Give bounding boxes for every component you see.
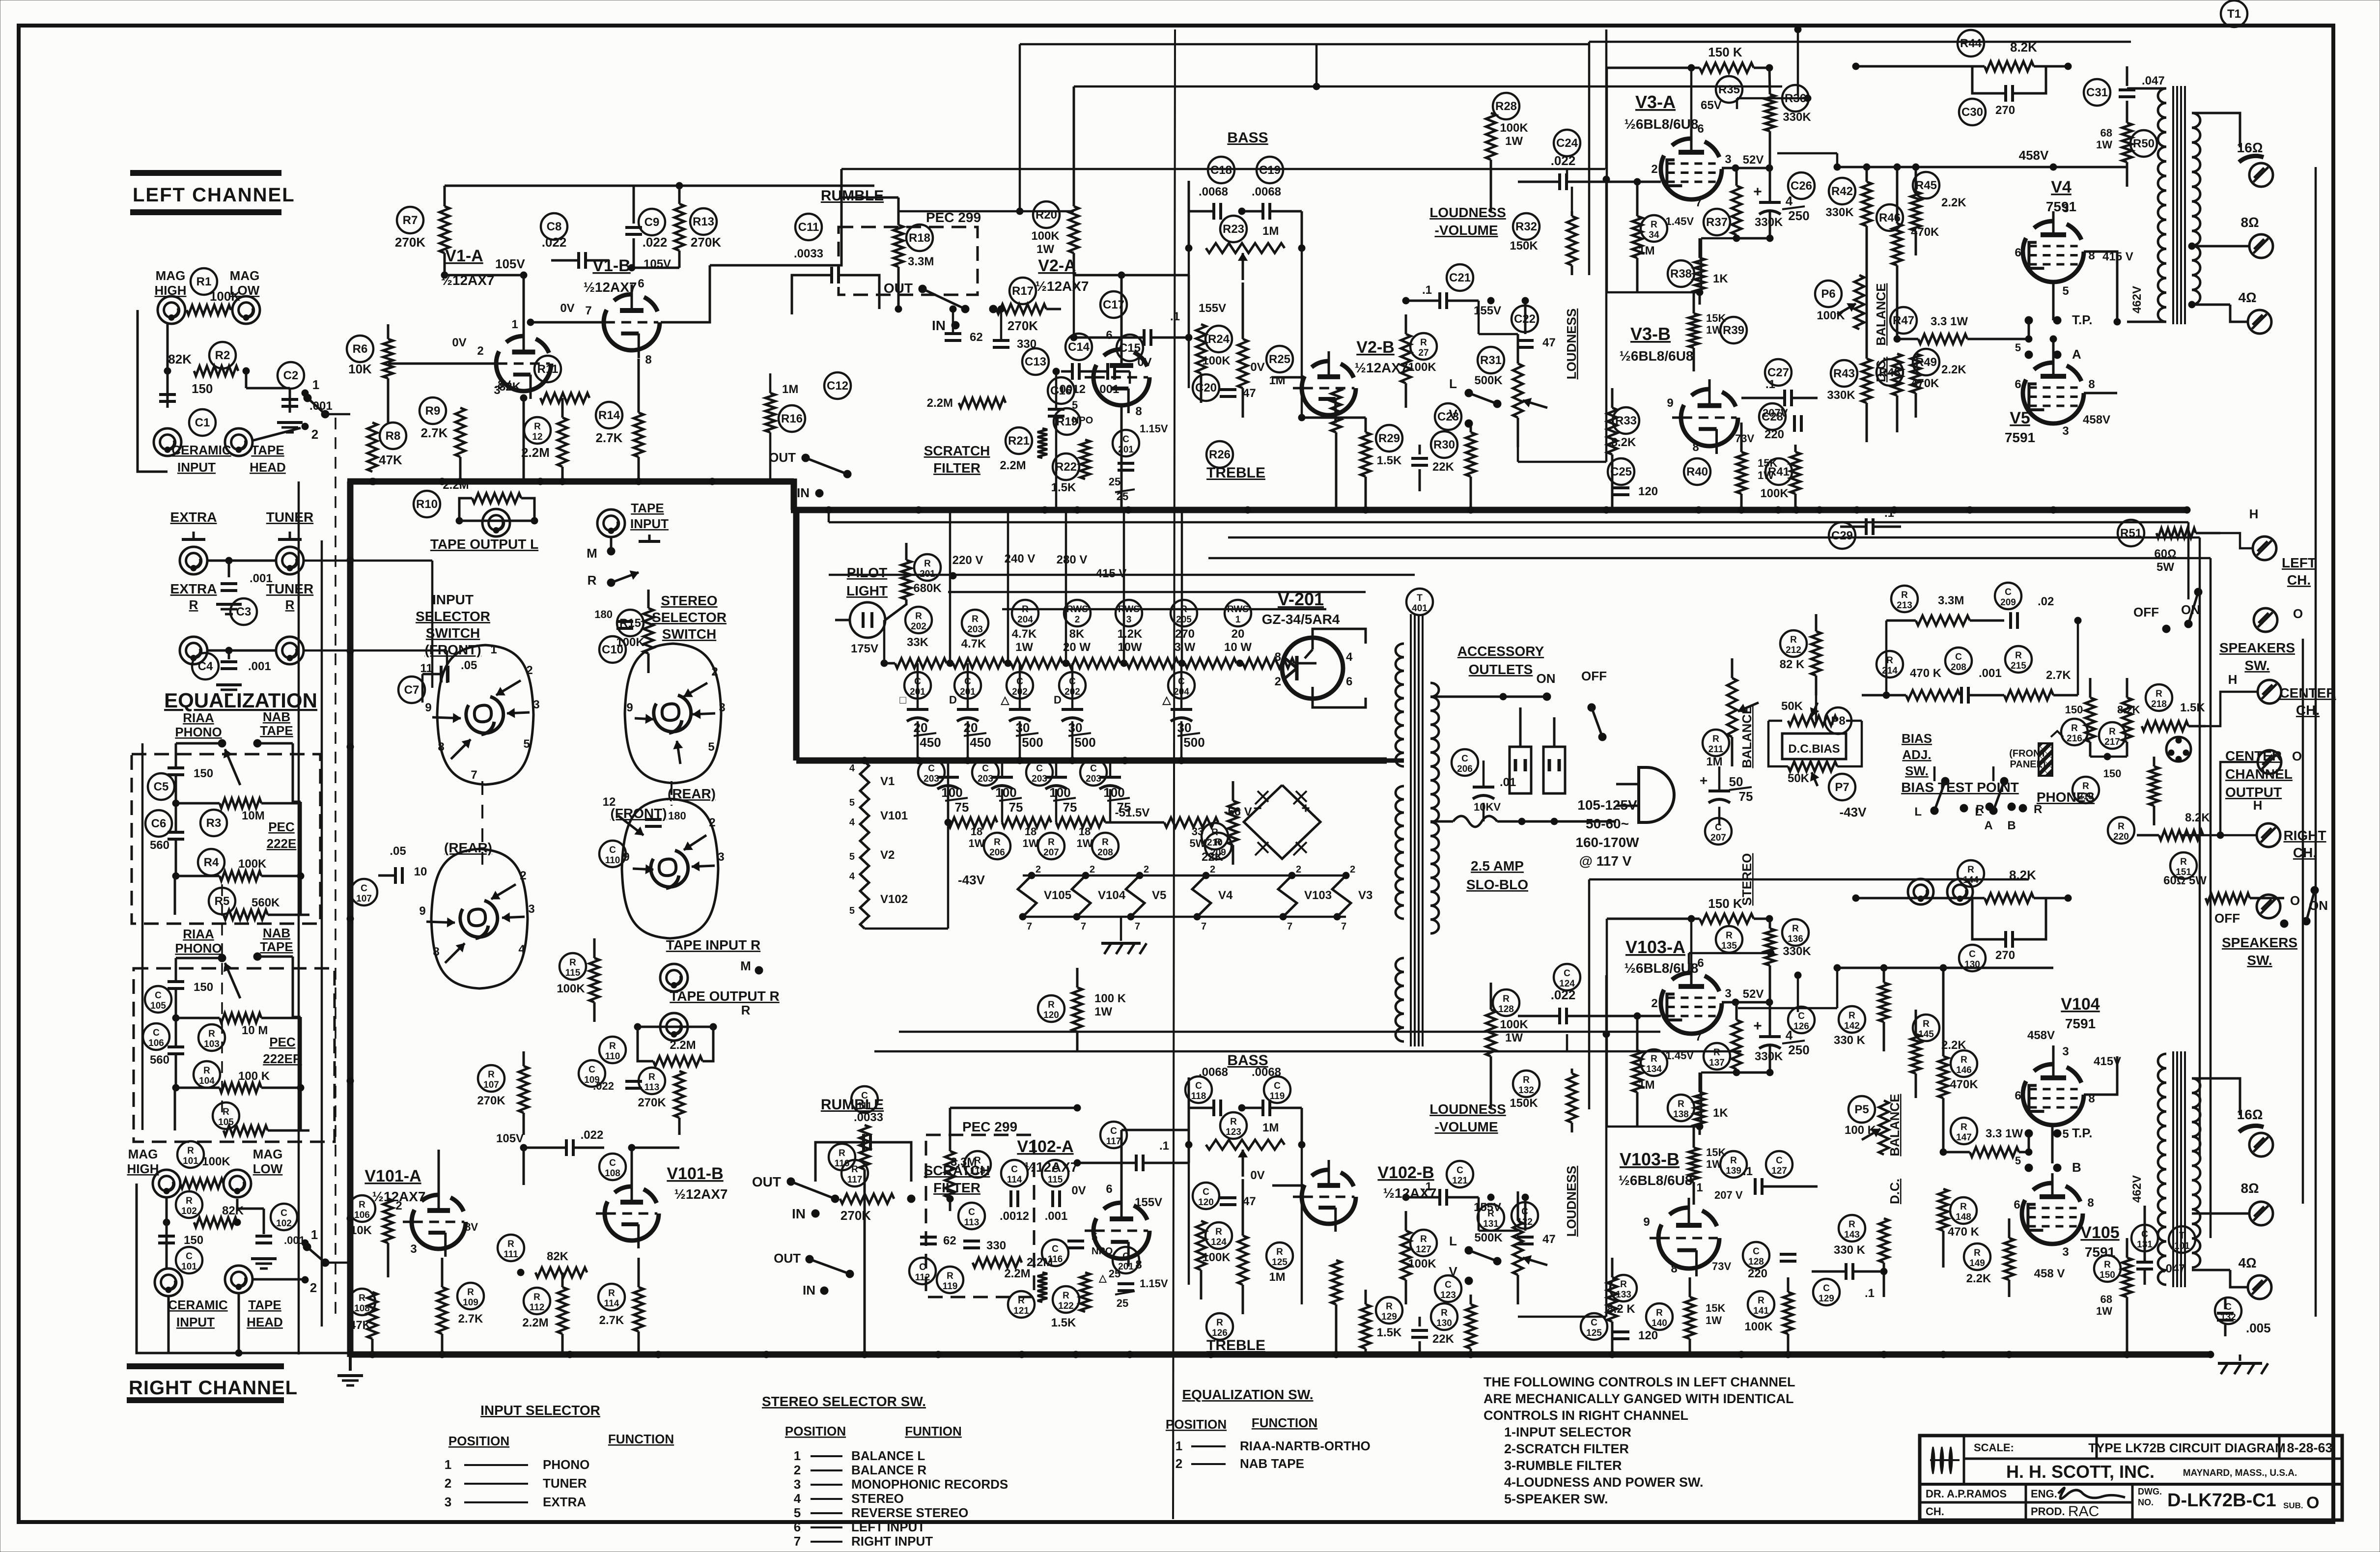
label scratch in <box>797 485 823 500</box>
resistor R118 designator <box>964 1151 991 1178</box>
resistor R147 designator <box>1951 1118 1977 1144</box>
svg-text:R30: R30 <box>1433 438 1455 451</box>
label R6 10K <box>348 362 372 376</box>
label R147 3.3 1W <box>1986 1127 2023 1140</box>
svg-text:214: 214 <box>1882 666 1898 676</box>
jack TAPE OUTPUT L <box>456 509 538 536</box>
svg-text:18: 18 <box>1079 825 1091 838</box>
resistor R34 <box>1632 178 1642 292</box>
svg-text:-51.5V: -51.5V <box>1115 806 1150 819</box>
hatched pad phones <box>2039 743 2052 776</box>
svg-text:15K: 15K <box>1706 1302 1725 1314</box>
svg-text:R: R <box>569 958 576 968</box>
resistor R42 <box>1862 164 1872 260</box>
label V3-A <box>1624 92 1699 132</box>
label C19 .0068 <box>1252 185 1281 198</box>
svg-text:C25: C25 <box>1610 465 1632 479</box>
svg-text:V3-B: V3-B <box>1630 324 1671 344</box>
capacitor C18 <box>1214 203 1221 220</box>
resistor R13 designator <box>690 208 717 235</box>
svg-text:R: R <box>203 1066 210 1076</box>
capacitor C201 bank2 <box>949 663 991 761</box>
svg-text:2: 2 <box>1144 864 1149 875</box>
heater chevrons V105 V104 V5 <box>1018 872 1166 920</box>
label FRONT PANEL <box>2009 731 2063 770</box>
svg-text:CENTER: CENTER <box>2279 685 2336 701</box>
title SCALE <box>1974 1441 2014 1454</box>
resistor R24 designator <box>1205 326 1232 352</box>
svg-text:50-60~: 50-60~ <box>1586 816 1629 831</box>
pot DC bias P7 <box>1788 762 1837 786</box>
resistor R104 <box>220 1070 270 1093</box>
svg-text:18: 18 <box>971 825 982 838</box>
capacitor C120 designator <box>1193 1183 1219 1209</box>
resistor R110 designator <box>599 1037 626 1063</box>
svg-text:2: 2 <box>526 664 532 677</box>
svg-text:R: R <box>1215 1227 1222 1237</box>
label R25 1M <box>1269 374 1285 387</box>
resistor R14 <box>634 359 644 481</box>
label R115 100K <box>557 982 585 995</box>
svg-text:EXTRA: EXTRA <box>543 1495 586 1509</box>
bias switch L <box>1914 777 1949 818</box>
capacitor C122 designator <box>1512 1202 1538 1229</box>
bias jack L <box>1908 879 1933 904</box>
transformer T1 secondary <box>2192 113 2200 305</box>
svg-text:4.7K: 4.7K <box>961 637 986 650</box>
capacitor C24 <box>1518 173 1661 190</box>
tube V103-A pentode <box>1661 963 1722 1034</box>
resistor R47 designator <box>1890 307 1917 334</box>
wire rumble top R <box>950 1104 1081 1142</box>
svg-text:R44: R44 <box>1960 37 1982 50</box>
svg-text:139: 139 <box>1726 1166 1741 1176</box>
jack TUNER R <box>276 637 304 664</box>
wire speaker sw mid <box>2206 692 2258 726</box>
svg-text:IN: IN <box>803 1283 815 1298</box>
svg-text:129: 129 <box>1381 1312 1397 1322</box>
wire V4 V5 to T1 <box>2050 252 2121 393</box>
svg-text:270K: 270K <box>477 1094 505 1107</box>
svg-text:100: 100 <box>1103 785 1124 800</box>
resistor R28 designator <box>1493 93 1519 119</box>
label PEC 222ER <box>263 1035 302 1066</box>
label TREBLE R <box>1206 1337 1265 1354</box>
svg-text:R: R <box>1420 338 1427 348</box>
capacitor C206 <box>1473 761 1516 821</box>
pot P5 designator <box>1848 1096 1875 1123</box>
svg-text:FUNTION: FUNTION <box>905 1424 962 1439</box>
svg-text:150K: 150K <box>1510 239 1538 253</box>
svg-text:R10: R10 <box>416 498 438 511</box>
svg-text:2: 2 <box>1296 864 1301 875</box>
label TAPE HEAD R <box>247 1298 283 1329</box>
resistor R127 <box>1401 1211 1411 1304</box>
wire r120 to v102 <box>1077 1051 1078 1163</box>
svg-text:130: 130 <box>1436 1318 1452 1328</box>
table INPUT SELECTOR title <box>480 1403 600 1418</box>
label R213 3.3M <box>1938 594 1964 607</box>
svg-text:1M: 1M <box>1706 755 1722 768</box>
svg-text:1.45V: 1.45V <box>1666 215 1694 227</box>
svg-text:0V: 0V <box>1250 361 1264 374</box>
svg-text:2: 2 <box>1651 997 1657 1010</box>
svg-text:V103-B: V103-B <box>1620 1149 1680 1169</box>
switch contact 1 <box>302 377 329 418</box>
label C119 .0068 <box>1252 1066 1281 1079</box>
svg-text:8: 8 <box>645 353 651 367</box>
svg-text:1.5K: 1.5K <box>1377 1326 1402 1339</box>
resistor R48 <box>1892 336 1902 432</box>
label RIGHT CH <box>2283 828 2326 860</box>
svg-text:109: 109 <box>463 1298 478 1308</box>
svg-text:205: 205 <box>1176 615 1192 625</box>
svg-text:NAB: NAB <box>263 709 290 724</box>
svg-text:C27: C27 <box>1767 366 1789 379</box>
svg-text:REVERSE STEREO: REVERSE STEREO <box>851 1505 968 1520</box>
svg-text:MONOPHONIC RECORDS: MONOPHONIC RECORDS <box>851 1477 1008 1492</box>
svg-text:560: 560 <box>150 839 169 852</box>
svg-text:7: 7 <box>1201 921 1206 932</box>
table EQUALIZATION headers <box>1166 1415 1317 1432</box>
svg-text:7: 7 <box>1287 921 1292 932</box>
wire r31 to v3 <box>1518 176 1610 462</box>
label RUMBLE R <box>821 1097 884 1113</box>
label R151 60 5W <box>2163 874 2207 887</box>
capacitor C208 <box>1961 667 2002 704</box>
terminal O right ch <box>2257 893 2300 918</box>
svg-text:6: 6 <box>1697 957 1704 970</box>
resistor R105 designator <box>213 1102 239 1129</box>
svg-text:.01: .01 <box>1500 776 1516 789</box>
label 458V top <box>2019 148 2049 163</box>
resistor R25 <box>1238 282 1248 418</box>
svg-text:R: R <box>1848 1011 1855 1021</box>
svg-text:LOUDNESS: LOUDNESS <box>1564 309 1579 379</box>
label RWS3 1.2K 10W <box>1118 627 1143 654</box>
label R145 2.2K <box>1941 1039 1966 1052</box>
pin labels V4 <box>2015 202 2095 298</box>
label R137 330K <box>1755 1050 1783 1063</box>
table stereo selector row 2 <box>794 1463 927 1477</box>
svg-text:5: 5 <box>849 797 855 808</box>
svg-text:4Ω: 4Ω <box>2238 290 2256 305</box>
capacitor C130 <box>1972 898 2046 948</box>
bridge rectifier <box>1244 785 1320 859</box>
svg-text:½6BL8/6U8: ½6BL8/6U8 <box>1624 116 1699 132</box>
svg-text:R18: R18 <box>909 231 930 245</box>
label ACCESSORY OUTLETS <box>1457 644 1544 677</box>
svg-text:127: 127 <box>1771 1166 1787 1176</box>
svg-text:120: 120 <box>1043 1010 1059 1020</box>
label R48 470K <box>1911 377 1939 390</box>
svg-text:+: + <box>1700 773 1708 788</box>
dashed box PEC 222E <box>132 754 320 924</box>
capacitor C117 designator <box>1100 1122 1127 1148</box>
svg-text:R: R <box>2180 857 2187 867</box>
svg-text:1W: 1W <box>1015 641 1033 654</box>
wire v3 grid <box>1566 169 1568 179</box>
resistor R128 <box>1486 983 1496 1108</box>
svg-text:125: 125 <box>1272 1257 1288 1268</box>
transformer T401 designator <box>1406 589 1433 615</box>
label V103-B <box>1619 1149 1693 1188</box>
resistor R36 designator <box>1782 85 1809 112</box>
svg-text:C: C <box>2141 1229 2148 1240</box>
svg-text:R: R <box>1230 1117 1237 1127</box>
svg-text:PEC 299: PEC 299 <box>962 1119 1017 1134</box>
pot P5 dc balance <box>1862 1101 1889 1155</box>
svg-text:H: H <box>2249 507 2259 521</box>
svg-text:1M: 1M <box>1269 374 1285 387</box>
svg-text:V2-B: V2-B <box>1356 338 1394 357</box>
terminal H center ch <box>2228 672 2281 704</box>
svg-text:50: 50 <box>1729 774 1743 789</box>
label 458V V104 <box>2027 1029 2055 1042</box>
svg-text:3: 3 <box>533 698 539 711</box>
svg-text:T: T <box>1417 593 1423 603</box>
svg-text:CHANNEL: CHANNEL <box>2225 766 2293 782</box>
bias switch R <box>1960 803 1984 816</box>
svg-text:IN: IN <box>797 485 810 500</box>
resistor R28 <box>1486 86 1496 211</box>
svg-text:LOUDNESS: LOUDNESS <box>1429 1101 1506 1117</box>
svg-text:R: R <box>1022 604 1029 615</box>
svg-text:2: 2 <box>711 665 718 678</box>
resistor R27 <box>1401 314 1411 408</box>
resistor R25 designator <box>1266 346 1293 372</box>
label C17 .1 <box>1170 310 1180 323</box>
pin labels V103A <box>1651 943 1731 1044</box>
capacitor C111 <box>815 1111 911 1182</box>
svg-text:136: 136 <box>1788 934 1803 944</box>
wire right edge vertical 2 <box>2302 639 2304 1204</box>
label INPUT SELECTOR SWITCH FRONT <box>416 592 490 657</box>
svg-text:C: C <box>919 1262 926 1272</box>
svg-text:SUB.: SUB. <box>2283 1501 2303 1510</box>
svg-text:C: C <box>1798 1011 1805 1021</box>
svg-text:280 V: 280 V <box>1057 553 1088 566</box>
svg-text:R6: R6 <box>353 342 368 356</box>
label R129 1.5K <box>1377 1326 1402 1339</box>
svg-text:R25: R25 <box>1269 353 1290 366</box>
jack MAG LOW R <box>224 1170 251 1197</box>
thick bus jog <box>791 479 797 510</box>
svg-text:RWS: RWS <box>1227 604 1249 615</box>
svg-text:.001: .001 <box>248 660 271 673</box>
svg-text:3: 3 <box>718 850 724 864</box>
resistor R129 <box>1361 1290 1371 1354</box>
resistor R27 designator <box>1410 333 1437 360</box>
resistor R104 designator <box>194 1061 220 1088</box>
title D-LK72B-C1 <box>2167 1490 2319 1512</box>
resistor R103 <box>220 1013 268 1037</box>
capacitor C124 designator <box>1554 964 1580 990</box>
svg-text:1.2K: 1.2K <box>1118 627 1143 641</box>
svg-text:105: 105 <box>218 1117 234 1128</box>
wire V1-B grid <box>527 319 604 364</box>
resistor R218 <box>2142 721 2206 731</box>
label R123 1M <box>1262 1121 1279 1134</box>
svg-text:CERAMIC: CERAMIC <box>168 1298 228 1312</box>
svg-text:.022: .022 <box>1551 153 1576 168</box>
capacitor C26 designator <box>1788 172 1815 199</box>
svg-text:105V: 105V <box>495 256 525 271</box>
svg-text:2.7K: 2.7K <box>599 1314 624 1327</box>
svg-text:LIGHT: LIGHT <box>846 583 888 598</box>
svg-text:108: 108 <box>354 1303 370 1314</box>
pot R211 stereo balance <box>1727 658 1759 766</box>
tube V1-A <box>487 326 551 399</box>
tube V3-A pentode <box>1661 129 1722 199</box>
label R12 2.2M <box>521 445 550 460</box>
svg-text:75: 75 <box>955 800 969 815</box>
svg-text:124: 124 <box>1211 1237 1227 1247</box>
label 52V R <box>1722 988 1773 1006</box>
capacitor C114 designator <box>1001 1160 1028 1186</box>
resistor R139 15K 1W <box>1689 1127 1699 1205</box>
resistor R7 <box>440 186 449 275</box>
transformer T1 core <box>2173 86 2185 324</box>
svg-text:2.2K: 2.2K <box>1966 1272 1991 1285</box>
resistor R146 <box>1938 964 1948 1152</box>
title ENG <box>2031 1488 2125 1500</box>
svg-text:127: 127 <box>1416 1244 1431 1255</box>
resistor R46 designator <box>1876 204 1903 231</box>
svg-text:R41: R41 <box>1768 465 1790 479</box>
jack TAPE INPUT R <box>660 964 688 991</box>
svg-text:R24: R24 <box>1208 333 1230 346</box>
svg-text:R: R <box>1848 1219 1855 1230</box>
svg-text:207: 207 <box>1043 847 1059 858</box>
jack TAPE HEAD R <box>225 1266 302 1293</box>
svg-text:208: 208 <box>1951 662 1966 673</box>
svg-text:47: 47 <box>1542 1233 1556 1246</box>
label RUMBLE <box>821 188 884 204</box>
capacitor C101 <box>158 1197 203 1269</box>
wire top feedback run <box>841 168 1605 170</box>
accessory outlet 1 <box>1510 697 1531 793</box>
svg-text:47: 47 <box>1542 336 1556 349</box>
svg-text:123: 123 <box>1226 1127 1241 1137</box>
label STEREO SELECTOR SWITCH <box>652 593 727 642</box>
label R34 1M <box>1638 244 1654 257</box>
svg-text:458V: 458V <box>2019 148 2049 163</box>
resistor R31 designator <box>1478 347 1504 373</box>
svg-text:0V: 0V <box>560 302 574 315</box>
svg-text:RIGHT: RIGHT <box>2283 828 2326 843</box>
svg-text:560: 560 <box>150 1053 169 1067</box>
resistor R133 <box>1607 1258 1617 1354</box>
svg-text:450: 450 <box>970 735 991 750</box>
wire right edge vertical long <box>2315 167 2317 1317</box>
label R204 4.7K 1W <box>1012 627 1037 654</box>
resistor R41 <box>1791 445 1800 510</box>
label MAG HIGH R <box>127 1147 159 1176</box>
note ganged controls <box>1484 1375 1795 1506</box>
label 0V V2A <box>1061 356 1152 384</box>
resistor R38 designator <box>1668 260 1694 287</box>
svg-text:100K: 100K <box>1817 309 1845 322</box>
svg-text:6: 6 <box>2015 1089 2021 1102</box>
label R43 330K <box>1827 389 1855 402</box>
svg-text:1W: 1W <box>2096 1305 2112 1317</box>
resistor R207 designator <box>1023 825 1065 859</box>
wire treble row <box>1298 403 1366 421</box>
resistor R113 designator <box>639 1068 665 1094</box>
pin labels V1-A <box>477 318 518 397</box>
svg-text:330: 330 <box>986 1239 1006 1252</box>
label V arrow <box>1449 407 1473 427</box>
resistor R103 designator <box>198 1024 225 1051</box>
svg-text:4: 4 <box>518 943 525 956</box>
svg-text:R: R <box>947 1271 953 1281</box>
svg-text:C12: C12 <box>827 379 848 393</box>
svg-text:5: 5 <box>849 851 855 862</box>
capacitor C129 <box>1812 1263 1887 1300</box>
svg-text:OFF: OFF <box>2214 911 2240 926</box>
capacitor C116 designator <box>1042 1240 1068 1266</box>
svg-text:MAG: MAG <box>230 268 260 283</box>
svg-text:100K: 100K <box>238 857 267 871</box>
svg-text:100K: 100K <box>1031 229 1060 243</box>
test point TP R <box>2025 1126 2092 1156</box>
table INPUT SELECTOR headers <box>448 1432 674 1448</box>
svg-text:250: 250 <box>1788 1043 1809 1057</box>
resistor chain RWS1 <box>1236 658 1316 668</box>
label R122 1.5K <box>1051 1316 1076 1329</box>
wire psu top rail <box>829 558 1415 575</box>
svg-text:128: 128 <box>1748 1257 1764 1267</box>
svg-text:140: 140 <box>1652 1318 1667 1328</box>
svg-text:BIAS TEST POINT: BIAS TEST POINT <box>1901 780 2019 795</box>
tube V1-B <box>595 284 660 358</box>
resistor R8 <box>367 423 377 485</box>
svg-text:-43V: -43V <box>1840 805 1867 819</box>
wire 458V rail R <box>1837 968 2053 1064</box>
svg-text:16Ω: 16Ω <box>2237 1107 2263 1122</box>
svg-text:1.15V: 1.15V <box>1140 1277 1168 1290</box>
label R111 82K <box>547 1250 569 1263</box>
svg-text:R49: R49 <box>1915 356 1937 369</box>
svg-text:SCALE:: SCALE: <box>1974 1441 2014 1454</box>
label 16 ohm R <box>2237 1107 2263 1122</box>
svg-text:3-RUMBLE FILTER: 3-RUMBLE FILTER <box>1504 1458 1622 1473</box>
svg-text:180: 180 <box>594 608 613 621</box>
resistor R112 designator <box>524 1288 550 1314</box>
svg-text:(REAR): (REAR) <box>444 840 492 855</box>
svg-text:3 W: 3 W <box>1175 641 1196 654</box>
wire v3b to c27 <box>1738 397 1741 398</box>
label 16 ohm <box>2237 140 2263 155</box>
svg-text:R: R <box>1441 1308 1448 1318</box>
label TAPE INPUT L <box>630 501 669 541</box>
svg-text:△: △ <box>1098 1273 1107 1284</box>
svg-text:270K: 270K <box>840 1208 871 1223</box>
capacitor C118 designator <box>1185 1076 1212 1103</box>
svg-text:8: 8 <box>433 945 439 959</box>
resistor R26 <box>1331 388 1341 510</box>
resistor R201 designator <box>914 554 941 581</box>
resistor R129 designator <box>1376 1297 1402 1324</box>
label RWS2 8K 20W <box>1063 627 1091 654</box>
label V102-B <box>1377 1163 1436 1201</box>
label R10 2.2M <box>443 479 469 492</box>
svg-text:½12AX7: ½12AX7 <box>1383 1185 1437 1201</box>
pin labels V1-B <box>585 277 651 367</box>
svg-text:V102-A: V102-A <box>1017 1137 1073 1156</box>
svg-text:V104: V104 <box>2061 995 2100 1014</box>
